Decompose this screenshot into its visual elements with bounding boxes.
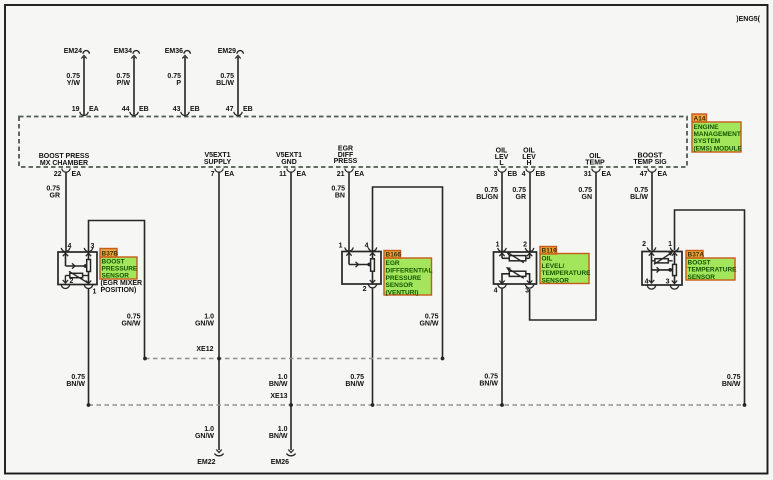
svg-text:OIL: OIL	[542, 256, 553, 263]
module pin 31 EA	[592, 169, 601, 173]
svg-text:EB: EB	[243, 106, 253, 113]
svg-text:0.75: 0.75	[350, 374, 364, 381]
svg-text:0.75: 0.75	[167, 73, 181, 80]
svg-text:EB: EB	[190, 106, 200, 113]
svg-text:2: 2	[523, 242, 527, 249]
svg-text:0.75: 0.75	[578, 187, 592, 194]
B37B pin 2 terminal	[61, 285, 70, 289]
svg-text:4: 4	[365, 243, 369, 250]
svg-text:BN/W: BN/W	[66, 381, 85, 388]
svg-text:EB: EB	[536, 171, 546, 178]
svg-text:EM24: EM24	[64, 48, 82, 55]
svg-text:GN: GN	[582, 194, 593, 201]
EMS module A14 dashed outline	[19, 117, 687, 168]
svg-text:SYSTEM: SYSTEM	[694, 138, 721, 145]
svg-text:ENGINE: ENGINE	[694, 124, 720, 131]
svg-text:GN/W: GN/W	[121, 321, 140, 328]
wire 0.75 BN/W B119 pin4 to XE13	[501, 288, 503, 405]
svg-text:0.75: 0.75	[727, 374, 741, 381]
svg-text:2: 2	[70, 278, 74, 285]
wire 0.75 GR module pin22 to B37B pin4	[65, 172, 67, 252]
svg-text:1: 1	[339, 243, 343, 250]
svg-text:L: L	[499, 160, 504, 167]
svg-text:1: 1	[93, 289, 97, 296]
svg-text:1: 1	[668, 241, 672, 248]
svg-text:A14: A14	[694, 116, 706, 123]
label A14 ENGINE MANAGEMENT SYSTEM (EMS) MODULE	[692, 122, 741, 152]
junction XE12 right	[441, 357, 445, 361]
svg-text:SENSOR: SENSOR	[102, 273, 130, 280]
svg-text:P: P	[176, 80, 181, 87]
svg-text:TEMP SIG: TEMP SIG	[633, 159, 667, 166]
junction XE13 B37A	[743, 403, 747, 407]
svg-text:4: 4	[645, 279, 649, 286]
B37A pin 3 terminal	[670, 285, 679, 289]
svg-text:EGR: EGR	[386, 260, 400, 267]
B37B internal variable resistor	[70, 273, 83, 277]
svg-text:EM26: EM26	[271, 459, 289, 466]
B119 oil level variable resistor	[501, 253, 503, 259]
module pin 7 EA	[215, 169, 224, 173]
wire 0.75 GN/W B166 pin4 branch to XE12	[373, 187, 443, 359]
svg-text:0.75: 0.75	[331, 186, 345, 193]
wire 1.0 GN/W V5EXT1 supply module pin7 to EM22	[218, 172, 220, 451]
svg-text:0.75: 0.75	[71, 374, 85, 381]
svg-text:P/W: P/W	[117, 80, 131, 87]
svg-text:EB: EB	[508, 171, 518, 178]
svg-text:BN/W: BN/W	[269, 381, 288, 388]
wire 0.75 BN/W B37B pin1 to XE13	[88, 288, 90, 405]
wire 0.75 GR module pin4 to B119 pin2	[529, 172, 531, 252]
svg-text:7: 7	[211, 171, 215, 178]
label B37A BOOST TEMPERATURE SENSOR	[686, 258, 735, 280]
module pin 3 EB	[498, 169, 507, 173]
svg-text:1: 1	[496, 242, 500, 249]
svg-text:3: 3	[666, 279, 670, 286]
boost pressure sensor B37B box	[58, 252, 97, 285]
wire EM36 to module pin 43EB	[184, 57, 186, 115]
splice XE13 dashed line	[89, 404, 745, 406]
svg-text:19: 19	[72, 106, 80, 113]
module pin 44 EB	[130, 112, 139, 116]
svg-text:BN/W: BN/W	[269, 433, 288, 440]
B37A internal resistor track	[674, 252, 676, 284]
B37B pin 1 terminal	[84, 285, 93, 289]
svg-text:44: 44	[122, 106, 130, 113]
terminal EM22	[216, 450, 221, 453]
svg-text:BL/W: BL/W	[630, 194, 648, 201]
svg-text:V5EXT1: V5EXT1	[276, 152, 302, 159]
svg-text:BOOST: BOOST	[688, 260, 711, 267]
svg-text:PRESSURE: PRESSURE	[386, 275, 422, 282]
splice XE12 dashed line	[145, 358, 443, 360]
svg-text:1.0: 1.0	[278, 426, 288, 433]
svg-text:MANAGEMENT: MANAGEMENT	[694, 131, 741, 138]
svg-text:GN/W: GN/W	[195, 433, 214, 440]
junction XE13 B37B	[87, 403, 91, 407]
svg-text:EA: EA	[89, 106, 99, 113]
svg-text:MX CHAMBER: MX CHAMBER	[40, 160, 88, 167]
svg-text:B37B: B37B	[102, 251, 119, 258]
svg-text:0.75: 0.75	[484, 187, 498, 194]
svg-text:0.75: 0.75	[484, 374, 498, 381]
B119 pin 2 terminal	[525, 248, 534, 252]
wire 0.75 GN/W B37B pin3 branch to XE12	[89, 221, 145, 359]
B37A pin 4 terminal	[647, 285, 656, 289]
svg-text:GR: GR	[50, 193, 61, 200]
B166 pin 1 terminal	[345, 247, 354, 251]
svg-text:1.0: 1.0	[204, 314, 214, 321]
B37B internal resistor track	[88, 253, 90, 284]
wire EM29 to module pin 47EB	[237, 57, 239, 115]
svg-text:47: 47	[226, 106, 234, 113]
B119 oil temperature variable resistor	[509, 271, 526, 276]
off-page connector EM36	[184, 51, 190, 54]
wire 0.75 GN module pin31 to B119 pin3	[530, 172, 596, 321]
svg-text:EM29: EM29	[218, 48, 236, 55]
svg-text:TEMPERATURE: TEMPERATURE	[688, 267, 738, 274]
svg-text:TEMP: TEMP	[585, 160, 605, 167]
B119 pin 3 terminal	[525, 284, 534, 288]
svg-text:GR: GR	[516, 194, 527, 201]
junction XE12 left	[143, 357, 147, 361]
svg-text:LEVEL/: LEVEL/	[542, 263, 565, 270]
wire 0.75 BL/GN module pin3 to B119 pin1	[501, 172, 503, 252]
module pin 47 EB	[234, 112, 243, 116]
svg-text:4: 4	[68, 243, 72, 250]
B119 pin 4 terminal	[498, 284, 507, 288]
svg-text:XE12: XE12	[196, 346, 213, 353]
wire 0.75 BN/W B37A pin1 branch to XE13	[675, 210, 745, 405]
svg-text:0.75: 0.75	[220, 73, 234, 80]
svg-text:31: 31	[584, 171, 592, 178]
svg-text:21: 21	[337, 171, 345, 178]
svg-text:)ENG5(: )ENG5(	[736, 16, 760, 23]
svg-text:EB: EB	[139, 106, 149, 113]
svg-text:SENSOR: SENSOR	[542, 277, 570, 284]
svg-text:EM34: EM34	[114, 48, 132, 55]
svg-text:EM22: EM22	[197, 459, 215, 466]
svg-text:BL/W: BL/W	[216, 80, 234, 87]
off-page connector EM24	[83, 51, 89, 54]
svg-text:0.75: 0.75	[425, 314, 439, 321]
svg-text:SENSOR: SENSOR	[386, 282, 414, 289]
B166 internal wiring pin1 wiper	[348, 252, 350, 265]
svg-text:V5EXT1: V5EXT1	[204, 152, 230, 159]
svg-text:SENSOR: SENSOR	[688, 274, 716, 281]
module pin 47 EA	[648, 169, 657, 173]
svg-text:BL/GN: BL/GN	[476, 194, 498, 201]
svg-text:TEMPERATURE: TEMPERATURE	[542, 270, 592, 277]
junction XE13 gnd	[289, 403, 293, 407]
svg-text:11: 11	[279, 171, 287, 178]
off-page connector EM34	[133, 51, 139, 54]
svg-text:(VENTURI): (VENTURI)	[386, 290, 419, 297]
B37A pin 1 terminal	[670, 247, 679, 251]
svg-text:BOOST: BOOST	[102, 259, 125, 266]
wire 0.75 BN module pin21 to B166 pin1	[348, 172, 350, 251]
svg-text:4: 4	[522, 171, 526, 178]
svg-text:3: 3	[525, 288, 529, 295]
svg-text:BOOST PRESS: BOOST PRESS	[39, 153, 90, 160]
svg-text:22: 22	[54, 171, 62, 178]
oil level temperature sensor B119 box	[494, 252, 537, 284]
svg-text:GN/W: GN/W	[195, 321, 214, 328]
svg-text:DIFFERENTIAL: DIFFERENTIAL	[386, 267, 433, 274]
svg-text:0.75: 0.75	[46, 186, 60, 193]
svg-text:3: 3	[91, 243, 95, 250]
svg-text:43: 43	[173, 106, 181, 113]
svg-text:PRESS: PRESS	[334, 158, 358, 165]
module pin 4 EB	[526, 169, 535, 173]
B37A internal wiper	[652, 269, 671, 271]
wire 1.0 BN/W V5EXT1 gnd module pin11 to EM26	[290, 172, 292, 451]
svg-text:BN: BN	[335, 193, 345, 200]
svg-text:B37A: B37A	[688, 252, 705, 259]
svg-text:EA: EA	[225, 171, 235, 178]
svg-text:2: 2	[642, 241, 646, 248]
wire 0.75 BL/W module pin47 to B37A pin2	[651, 172, 653, 251]
svg-text:(EMS) MODULE: (EMS) MODULE	[694, 145, 743, 152]
svg-text:3: 3	[494, 171, 498, 178]
svg-text:Y/W: Y/W	[67, 80, 81, 87]
label B119 OIL LEVEL TEMPERATURE SENSOR	[540, 254, 589, 284]
svg-text:EA: EA	[602, 171, 612, 178]
B37A pin 2 terminal	[647, 247, 656, 251]
wire EM34 to module pin 44EB	[133, 57, 135, 115]
svg-text:1.0: 1.0	[278, 374, 288, 381]
svg-text:GND: GND	[281, 159, 297, 166]
svg-text:XE13: XE13	[270, 393, 287, 400]
svg-text:EA: EA	[355, 171, 365, 178]
svg-text:SUPPLY: SUPPLY	[204, 159, 232, 166]
svg-text:H: H	[526, 160, 531, 167]
svg-text:B166: B166	[386, 252, 402, 259]
svg-text:EA: EA	[72, 171, 82, 178]
svg-text:0.75: 0.75	[127, 314, 141, 321]
module pin 11 EA	[287, 169, 296, 173]
label B37B BOOST PRESSURE SENSOR	[100, 257, 137, 279]
svg-text:0.75: 0.75	[512, 187, 526, 194]
svg-text:0.75: 0.75	[116, 73, 130, 80]
B119 pin 1 terminal	[498, 248, 507, 252]
svg-text:POSITION): POSITION)	[101, 287, 137, 294]
svg-text:EA: EA	[297, 171, 307, 178]
label B166 EGR DIFFERENTIAL PRESSURE SENSOR (VENTURI)	[384, 258, 432, 295]
svg-text:4: 4	[494, 288, 498, 295]
B166 pin 4 terminal	[368, 247, 377, 251]
junction XE13 B119	[500, 403, 504, 407]
junction XE12 supply	[217, 357, 221, 361]
module pin 21 EA	[345, 169, 354, 173]
terminal EM26	[288, 450, 293, 453]
EGR differential pressure sensor B166 box	[342, 252, 381, 285]
boost temperature sensor B37A box	[642, 252, 682, 286]
svg-text:0.75: 0.75	[634, 187, 648, 194]
module pin 19 EA	[80, 112, 89, 116]
B37A internal variable resistor	[651, 252, 653, 283]
svg-text:1.0: 1.0	[204, 426, 214, 433]
B37B pin 4 terminal	[61, 248, 70, 252]
svg-text:BN/W: BN/W	[722, 381, 741, 388]
B166 internal resistor track	[372, 252, 374, 283]
svg-text:0.75: 0.75	[66, 73, 80, 80]
off-page connector EM29	[237, 51, 243, 54]
svg-text:2: 2	[363, 286, 367, 293]
B166 pin 2 terminal	[368, 284, 377, 288]
svg-text:(EGR MIXER: (EGR MIXER	[101, 280, 143, 287]
B37B pin 3 terminal	[84, 248, 93, 252]
module pin 22 EA	[62, 169, 71, 173]
svg-text:EA: EA	[658, 171, 668, 178]
junction XE13 B166	[371, 403, 375, 407]
svg-text:EM36: EM36	[165, 48, 183, 55]
svg-text:B119: B119	[542, 248, 558, 255]
svg-text:PRESSURE: PRESSURE	[102, 266, 138, 273]
svg-text:47: 47	[640, 171, 648, 178]
svg-text:GN/W: GN/W	[419, 321, 438, 328]
module pin 43 EB	[181, 112, 190, 116]
svg-text:BN/W: BN/W	[345, 381, 364, 388]
svg-text:BN/W: BN/W	[479, 381, 498, 388]
B37B internal wiring pin4 wiper	[65, 253, 67, 267]
wire 0.75 BN/W B166 pin2 to XE13	[372, 288, 374, 405]
wire EM24 to module pin 19EA	[83, 57, 85, 115]
